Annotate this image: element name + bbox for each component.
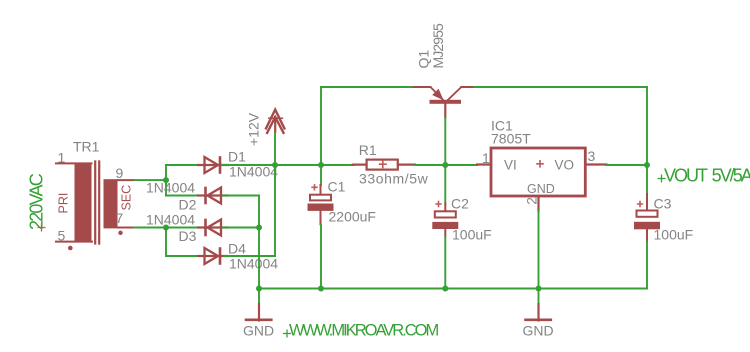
node ground rail left junction	[256, 286, 262, 292]
svg-text:GND: GND	[527, 182, 555, 196]
svg-text:2: 2	[524, 197, 540, 205]
resistor R1	[353, 160, 415, 170]
wire pin9 to junction	[134, 179, 166, 181]
capacitor C3	[634, 165, 660, 242]
svg-text:7: 7	[116, 210, 124, 226]
wire vertical pin7 junction down to D4 level	[165, 228, 167, 257]
wire D2 anode to negative rail	[223, 195, 259, 197]
transformer TR1 secondary winding	[104, 179, 118, 228]
svg-text:D3: D3	[179, 228, 197, 244]
wire D3 anode to negative rail	[223, 227, 259, 229]
node pin7 junction	[163, 225, 169, 231]
wire Q1 base down to R1 junction and C2	[444, 117, 446, 203]
diode D1	[198, 157, 228, 173]
wire D4 cathode to riser	[224, 255, 275, 257]
wire top rail right	[473, 86, 648, 88]
node R1 right junction	[442, 162, 448, 168]
svg-text:GND: GND	[523, 322, 554, 338]
ground symbol left	[246, 289, 271, 321]
node pin9 junction	[163, 177, 169, 183]
svg-text:MJ2955: MJ2955	[430, 23, 446, 69]
svg-text:100uF: 100uF	[654, 227, 694, 243]
svg-text:1N4004: 1N4004	[229, 256, 278, 272]
node IC1 ground junction	[536, 286, 542, 292]
wire R1 to IC1 pin1	[415, 164, 477, 166]
node plus rail junction at riser	[272, 162, 278, 168]
transformer TR1 pin 7 lead	[118, 227, 135, 229]
IC1 7805 regulator box	[477, 148, 607, 211]
wire +12V stub	[274, 132, 276, 165]
watermark origin cross	[283, 330, 291, 338]
node C2 ground junction	[442, 286, 448, 292]
svg-text:TR1: TR1	[73, 139, 100, 155]
net label 220VAC origin cross	[38, 224, 46, 232]
diode D2	[198, 188, 228, 204]
svg-text:D2: D2	[179, 197, 197, 213]
svg-text:VOUT 5V/5A: VOUT 5V/5A	[664, 165, 750, 185]
svg-text:33ohm/5w: 33ohm/5w	[359, 171, 429, 187]
capacitor C1	[308, 165, 334, 225]
transformer TR1 pin 1 lead	[56, 162, 92, 164]
svg-text:3: 3	[588, 148, 596, 164]
svg-text:1N4004: 1N4004	[146, 180, 195, 196]
wire to D4 anode	[166, 255, 202, 257]
svg-text:+12V: +12V	[246, 112, 262, 146]
transistor Q1	[414, 87, 473, 117]
transformer TR1 core line 2	[98, 162, 100, 244]
diode D4	[198, 248, 228, 264]
wire D1 cathode to R1	[222, 164, 354, 166]
svg-text:1: 1	[482, 150, 490, 166]
wire C1 bottom to ground rail	[320, 225, 322, 289]
svg-text:PRI: PRI	[57, 193, 71, 214]
ground symbol right	[526, 289, 551, 321]
svg-text:R1: R1	[359, 142, 377, 158]
wire riser D4 to plus rail	[274, 165, 276, 256]
wire vertical junction to D1/D2 levels	[165, 165, 167, 196]
diode D3	[198, 220, 228, 236]
svg-text:D4: D4	[228, 241, 246, 257]
svg-text:1N4004: 1N4004	[146, 212, 195, 228]
svg-text:VO: VO	[555, 158, 575, 173]
svg-text:C2: C2	[451, 196, 469, 212]
transformer TR1 pin 5 lead	[56, 241, 92, 243]
node C1 ground junction	[318, 286, 324, 292]
node D2/D3 anode junction	[256, 225, 262, 231]
transformer TR1 core line 1	[94, 162, 96, 244]
wire pin7 to D3 cathode	[134, 227, 201, 229]
svg-text:WWW.MIKROAVR.COM: WWW.MIKROAVR.COM	[289, 321, 439, 339]
svg-text:C1: C1	[328, 179, 346, 195]
wire to D1 anode	[166, 164, 202, 166]
svg-text:VI: VI	[504, 158, 517, 173]
node output junction	[644, 162, 650, 168]
svg-text:7805T: 7805T	[491, 131, 531, 147]
wire C3 bottom to ground rail	[646, 242, 648, 289]
wire negative vertical rail	[258, 196, 260, 289]
svg-text:9: 9	[116, 165, 124, 181]
svg-text:C3: C3	[654, 196, 672, 212]
transformer TR1 polarity dot primary	[68, 246, 73, 251]
svg-text:220VAC: 220VAC	[27, 173, 47, 230]
wire right rail down	[646, 87, 648, 165]
supply +12V arrow	[266, 110, 284, 133]
wire IC1 pin2 to ground rail	[538, 211, 540, 289]
wire C1 junction riser to top rail	[320, 87, 322, 165]
net label VOUT origin cross	[658, 175, 666, 183]
transformer TR1 polarity dot secondary	[118, 231, 122, 235]
node C1 top junction	[318, 162, 324, 168]
wire to D2 cathode	[166, 195, 201, 197]
svg-text:D1: D1	[228, 149, 246, 165]
transformer TR1 primary winding	[75, 163, 92, 243]
svg-text:2200uF: 2200uF	[329, 209, 376, 225]
transformer TR1 pin 9 lead	[118, 179, 135, 181]
wire top rail left	[321, 86, 414, 88]
svg-text:SEC: SEC	[120, 185, 134, 211]
wire IC1 pin3 to output node	[607, 164, 648, 166]
svg-text:GND: GND	[243, 322, 274, 338]
svg-text:100uF: 100uF	[452, 227, 492, 243]
wire ground rail	[259, 288, 647, 290]
capacitor C2	[432, 201, 458, 237]
wire C2 bottom to ground rail	[444, 237, 446, 289]
